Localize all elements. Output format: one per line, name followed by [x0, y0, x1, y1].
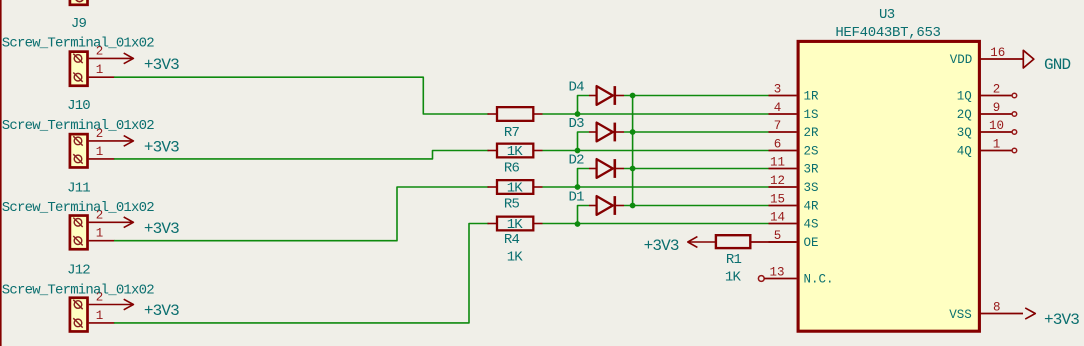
J12 pin 1 [89, 309, 115, 323]
svg-text:10: 10 [989, 119, 1004, 133]
resistor R5 [488, 180, 543, 194]
junction on S-row at D4 tap [575, 111, 581, 117]
power +3V3 on J10 pin 2 [115, 136, 179, 157]
svg-text:J9: J9 [71, 16, 87, 32]
svg-text:1: 1 [96, 145, 104, 159]
wire D4 cathode to U3 R-pin [624, 95, 769, 97]
U3 pin 2 (1Q) unconnected [957, 82, 1017, 103]
wire J10 pin 1 to resistor [114, 151, 489, 159]
U3 pin 9 (2Q) unconnected [957, 101, 1017, 122]
junction on S-row at D1 tap [575, 221, 581, 227]
J10 pin 2 [89, 127, 115, 141]
svg-text:J11: J11 [67, 180, 90, 196]
power +3V3 at VSS (right-pointing) [1025, 308, 1079, 329]
power +3V3 on J12 pin 2 [115, 299, 179, 320]
U3 pin 12 (3S) [769, 174, 819, 195]
U3 pin 8 (VSS) [949, 300, 1023, 322]
wire D3 anode tap from S-row [578, 132, 590, 151]
U3 pin 5 (OE) [769, 229, 819, 250]
svg-text:D4: D4 [569, 80, 585, 96]
svg-text:+3V3: +3V3 [1044, 311, 1079, 329]
svg-text:+3V3: +3V3 [144, 220, 179, 238]
diode D1 [589, 196, 624, 215]
svg-text:R1: R1 [726, 252, 742, 268]
svg-text:2: 2 [993, 82, 1001, 96]
svg-text:1K: 1K [725, 270, 742, 286]
U3 pin 16 (VDD) [950, 46, 1024, 67]
junction D1 cathode / reset bus [630, 203, 636, 209]
svg-text:3S: 3S [804, 181, 819, 195]
wire D2 cathode to U3 R-pin [624, 168, 769, 170]
svg-text:1: 1 [96, 309, 104, 323]
resistor R4 [488, 217, 543, 231]
svg-text:9: 9 [993, 101, 1001, 115]
svg-text:4: 4 [774, 101, 782, 115]
svg-text:4R: 4R [804, 200, 820, 214]
wire D3 cathode to U3 R-pin [624, 131, 769, 133]
svg-text:OE: OE [804, 236, 819, 250]
svg-text:14: 14 [770, 210, 785, 224]
wire D4 anode tap from S-row [578, 96, 590, 115]
connector J10 (Screw_Terminal_01x02) [70, 134, 88, 167]
svg-text:VDD: VDD [950, 53, 973, 67]
svg-text:2R: 2R [804, 126, 820, 140]
J9 pin 2 [89, 44, 115, 58]
svg-text:1R: 1R [804, 90, 820, 104]
U3 pin 15 (4R) [769, 192, 820, 213]
svg-text:R6: R6 [504, 161, 520, 177]
svg-text:HEF4043BT,653: HEF4043BT,653 [835, 25, 940, 41]
svg-text:U3: U3 [879, 7, 895, 23]
U3 pin 3 (1R) [769, 82, 820, 103]
wire common reset bus (diode cathodes) [632, 96, 634, 206]
power +3V3 on J9 pin 2 [115, 53, 179, 74]
svg-text:J10: J10 [67, 98, 90, 114]
svg-text:VSS: VSS [949, 308, 972, 322]
connector J8 (partial, cut off at top) [70, 0, 88, 5]
svg-text:GND: GND [1044, 56, 1071, 74]
svg-text:1: 1 [96, 63, 104, 77]
power +3V3 at R1 (left-pointing) [644, 237, 716, 256]
U3 pin 10 (3Q) unconnected [957, 119, 1017, 140]
svg-text:4Q: 4Q [957, 145, 972, 159]
svg-text:1K: 1K [507, 249, 524, 265]
junction D2 cathode / reset bus [630, 166, 636, 172]
wire J9 pin 1 to resistor [114, 77, 489, 114]
J12 pin 2 [89, 291, 115, 305]
svg-text:+3V3: +3V3 [144, 139, 179, 157]
svg-text:J12: J12 [67, 263, 90, 279]
svg-text:1Q: 1Q [957, 90, 972, 104]
J11 pin 1 [89, 227, 115, 241]
svg-text:R5: R5 [504, 196, 520, 212]
diode D2 [589, 159, 624, 178]
svg-text:8: 8 [993, 300, 1001, 314]
J10 pin 1 [89, 145, 115, 159]
resistor R7 [488, 107, 543, 121]
wire J12 pin 1 to resistor [114, 224, 489, 323]
svg-text:+3V3: +3V3 [644, 237, 679, 255]
svg-text:D1: D1 [569, 190, 585, 206]
U3 pin 14 (4S) [769, 210, 819, 231]
U3 pin 11 (3R) [769, 155, 820, 176]
svg-text:D3: D3 [569, 116, 585, 132]
diode D4 [589, 86, 624, 105]
U3 pin 13 (N.C.) with unconnected circle [758, 265, 833, 286]
svg-text:Screw_Terminal_01x02: Screw_Terminal_01x02 [2, 36, 154, 52]
J9 pin 1 [89, 63, 115, 77]
connector J11 (Screw_Terminal_01x02) [70, 216, 88, 250]
svg-text:3: 3 [774, 82, 782, 96]
op-amp-style IC body U3 HEF4043BT [798, 41, 979, 331]
svg-text:11: 11 [770, 155, 785, 169]
U3 pin 7 (2R) [769, 119, 820, 140]
svg-text:6: 6 [774, 137, 782, 151]
svg-text:13: 13 [769, 265, 784, 279]
svg-text:1: 1 [96, 227, 104, 241]
svg-text:+3V3: +3V3 [144, 302, 179, 320]
svg-text:1S: 1S [804, 108, 819, 122]
junction on S-row at D3 tap [575, 148, 581, 154]
junction D4 cathode / reset bus [630, 93, 636, 99]
resistor R1 [716, 235, 797, 248]
svg-text:4S: 4S [804, 218, 819, 232]
junction on S-row at D2 tap [575, 184, 581, 190]
svg-text:R4: R4 [504, 232, 520, 248]
U3 pin 4 (1S) [769, 101, 819, 122]
svg-text:5: 5 [774, 229, 782, 243]
svg-text:R7: R7 [504, 125, 520, 141]
connector J12 (Screw_Terminal_01x02) [70, 298, 88, 332]
svg-text:+3V3: +3V3 [144, 56, 179, 74]
wire D1 cathode to U3 R-pin [624, 205, 769, 207]
svg-text:D2: D2 [569, 153, 585, 169]
resistor R6 [488, 144, 543, 158]
svg-text:15: 15 [770, 192, 785, 206]
svg-text:2S: 2S [804, 145, 819, 159]
wire 3S net (resistor to U3 pin) [543, 186, 769, 188]
svg-text:7: 7 [774, 119, 782, 133]
power +3V3 on J11 pin 2 [115, 217, 179, 238]
wire D1 anode tap from S-row [578, 206, 590, 225]
wire 1S net (resistor to U3 pin) [543, 113, 769, 115]
svg-text:12: 12 [770, 174, 785, 188]
diode D3 [589, 123, 624, 142]
svg-text:Screw_Terminal_01x02: Screw_Terminal_01x02 [2, 200, 154, 216]
wire 2S net (resistor to U3 pin) [543, 150, 769, 152]
svg-text:3R: 3R [804, 163, 820, 177]
connector J9 (Screw_Terminal_01x02) [70, 52, 88, 86]
power GND (open triangle) [1023, 50, 1070, 74]
wire 4S net (resistor to U3 pin) [543, 223, 769, 225]
svg-text:Screw_Terminal_01x02: Screw_Terminal_01x02 [2, 282, 154, 298]
wire J11 pin 1 to resistor [114, 187, 489, 241]
U3 pin 1 (4Q) unconnected [957, 137, 1017, 158]
svg-text:3Q: 3Q [957, 126, 972, 140]
svg-text:N.C.: N.C. [804, 273, 834, 287]
J11 pin 2 [89, 208, 115, 222]
svg-text:2Q: 2Q [957, 108, 972, 122]
U3 pin 6 (2S) [769, 137, 819, 158]
svg-text:1: 1 [993, 137, 1001, 151]
svg-text:Screw_Terminal_01x02: Screw_Terminal_01x02 [2, 118, 154, 134]
svg-text:16: 16 [990, 46, 1005, 60]
junction D3 cathode / reset bus [630, 129, 636, 135]
wire D2 anode tap from S-row [578, 169, 590, 188]
